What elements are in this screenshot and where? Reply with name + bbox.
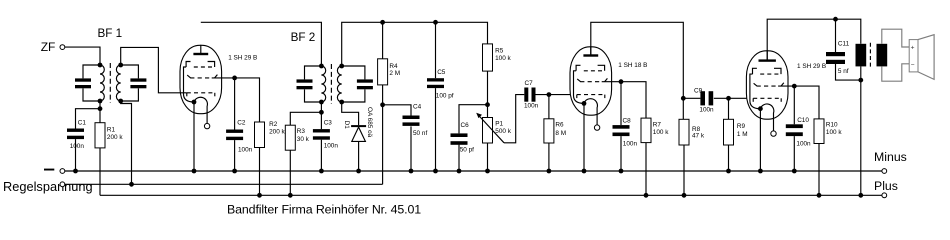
tube U2 anode (583, 54, 598, 56)
svg-text:C10: C10 (797, 117, 809, 124)
wire node to R3 (290, 112, 321, 125)
junction C2 minus (232, 169, 237, 174)
junction BF1 primary top (98, 63, 103, 68)
svg-text:R6: R6 (555, 122, 564, 129)
wire R10 to plus bus (818, 144, 820, 196)
wire rail to C5 (435, 22, 437, 78)
svg-text:R2: R2 (269, 121, 278, 128)
tuning capacitor across BF2 secondary (342, 66, 365, 79)
junction BF2 primary bottom (319, 100, 324, 105)
junction C1 minus (73, 169, 78, 174)
capacitor C9 (700, 91, 705, 105)
svg-text:100 k: 100 k (653, 129, 669, 136)
wire R4 to Regelspannung bus (382, 85, 384, 184)
capacitor C6 (451, 133, 468, 137)
wire BF2 secondary bottom to D1 (342, 102, 359, 125)
wire C8 to minus bus (620, 136, 622, 171)
wire node to C6 (459, 105, 488, 134)
tube U1 envelope (180, 45, 222, 113)
tube U2 envelope (570, 47, 612, 115)
svg-text:C6: C6 (461, 122, 470, 129)
junction R9 node (726, 96, 731, 101)
wire U3 anode to output transformer (767, 19, 861, 60)
tube U1 cathode/filament hook (194, 97, 207, 123)
wire C1 to minus bus (75, 139, 77, 171)
terminal Regelspannung (60, 182, 65, 187)
wire C5 to minus bus (435, 88, 437, 171)
tube U2 cathode junction (582, 101, 587, 106)
terminal ZF (60, 45, 65, 50)
wire ZF to BF1 primary top (65, 47, 100, 65)
tube U2 grid g3 (hooked dashed row) (576, 65, 580, 71)
label minus symbol (44, 169, 54, 171)
tube U1 screen lead to node (212, 77, 235, 79)
svg-text:100 k: 100 k (495, 55, 511, 62)
svg-text:R7: R7 (653, 121, 662, 128)
junction R4 top on rail (380, 20, 385, 25)
junction T1 plus (858, 193, 863, 198)
wire T1 primary bottom to plus bus (860, 66, 862, 195)
tube U1 grid g2 (dashed row) (190, 77, 210, 79)
junction R6 minus (547, 169, 552, 174)
resistor R1 (99, 109, 101, 123)
wire screen node to C8 (620, 82, 622, 125)
svg-text:47 k: 47 k (692, 132, 705, 139)
resistor R8 (679, 119, 689, 145)
wire screen node to R2 (235, 78, 260, 122)
tube U1 anode (193, 53, 208, 55)
speaker LS1 (909, 40, 918, 72)
svg-text:Minus: Minus (874, 150, 907, 164)
junction C5 top on rail (433, 20, 438, 25)
svg-text:100n: 100n (70, 143, 85, 150)
capacitor C3 (320, 112, 322, 129)
tube U2 filament terminal (594, 125, 599, 130)
wire C11 to primary bottom (836, 64, 861, 80)
transformer BF1 core (109, 63, 111, 103)
svg-text:500 k: 500 k (495, 128, 511, 135)
wire node to C4 (383, 105, 411, 116)
wire BF2 primary bottom to R3/C3 node (320, 102, 322, 112)
resistor R10 (814, 119, 824, 144)
terminal Minus right (882, 169, 887, 174)
wire C3 to minus bus (320, 140, 322, 171)
tube U3 cathode/filament hook (760, 104, 773, 131)
junction tube U2 cathode minus (582, 169, 587, 174)
wire node to C9 (683, 97, 700, 99)
svg-text:8 M: 8 M (555, 130, 566, 137)
resistor R7 (641, 118, 651, 143)
svg-text:R1: R1 (107, 127, 116, 134)
wire U1 anode to BF2 primary (201, 22, 322, 66)
wire tube U2 cathode to minus bus (583, 103, 585, 171)
junction R2 plus (257, 193, 262, 198)
wire R1 to plus bus (99, 148, 101, 195)
junction C7/R6 node (547, 92, 552, 97)
svg-text:5 nf: 5 nf (838, 68, 849, 75)
svg-text:Bandfilter Firma Reinhöfer Nr.: Bandfilter Firma Reinhöfer Nr. 45.01 (227, 202, 421, 216)
tuning capacitor across BF2 primary (305, 66, 322, 79)
wire screen node to R7 (621, 82, 646, 118)
capacitor C8 (613, 125, 630, 129)
junction BF2 secondary top (339, 64, 344, 69)
svg-text:1 SH 29 B: 1 SH 29 B (228, 55, 257, 62)
svg-text:50 nf: 50 nf (413, 130, 427, 137)
svg-text:R3: R3 (297, 128, 306, 135)
junction R8/C9 node (681, 96, 686, 101)
tube U2 screen lead to node (602, 81, 621, 83)
wire U2 anode to R8 (591, 22, 684, 119)
wire P1 wiper to C7 (504, 95, 524, 143)
tube U3 filament terminal (771, 131, 776, 136)
junction BF1 primary bottom (98, 99, 103, 104)
transformer BF1 secondary winding (116, 65, 120, 101)
wire C4 to minus bus (410, 126, 412, 171)
svg-text:100n: 100n (623, 140, 638, 147)
svg-text:C9: C9 (694, 87, 703, 94)
junction R9 minus (726, 169, 731, 174)
wire rail to C11 (835, 19, 837, 52)
wire screen node to C2 (234, 78, 236, 130)
junction P1 minus (485, 169, 490, 174)
tube U1 cathode junction (192, 100, 197, 105)
wire R6 to minus bus (548, 143, 550, 171)
junction secondary return on Regelspannung bus (129, 182, 134, 187)
wire tube U3 cathode to minus bus (759, 109, 761, 171)
svg-text:100n: 100n (699, 107, 714, 114)
tube U2 suppressor-to-cathode lead (574, 71, 585, 104)
terminal minus left (60, 169, 65, 174)
junction BF1 secondary top (118, 63, 123, 68)
tube U1 grid g3 (hooked dashed row) (186, 62, 190, 68)
junction tube U1 cathode minus (192, 169, 197, 174)
tube U1 anode lead (200, 45, 202, 54)
capacitor C4 (403, 116, 420, 120)
wire C6 to minus bus (458, 145, 460, 171)
resistor R4 (378, 59, 388, 85)
tube U2 grid g1 (dashed row) (577, 94, 605, 96)
svg-text:−: − (911, 61, 915, 68)
svg-text:2 M: 2 M (389, 70, 400, 77)
svg-text:C5: C5 (437, 69, 446, 76)
svg-text:P1: P1 (495, 121, 503, 128)
svg-text:OA 685 oä: OA 685 oä (366, 107, 373, 138)
tube U3 screen lead to node (778, 85, 794, 87)
transformer BF2 secondary winding (337, 66, 341, 102)
tube U3 grid g2 (dashed row) (757, 85, 777, 87)
wire rail to R4 (382, 22, 384, 59)
junction C11 top (833, 17, 838, 22)
wire BF1 secondary bottom to Regelspannung bus (121, 101, 132, 184)
tube U3 suppressor-to-cathode lead (750, 74, 761, 109)
svg-text:C1: C1 (78, 119, 87, 126)
junction U1 screen node (232, 76, 237, 81)
svg-text:100n: 100n (324, 143, 339, 150)
wire R3 to plus bus (289, 150, 291, 195)
output transformer T1 primary winding (856, 44, 867, 67)
svg-text:1 SH 29 B: 1 SH 29 B (797, 63, 826, 70)
junction BF2 secondary bottom (339, 100, 344, 105)
svg-text:C8: C8 (623, 117, 632, 124)
wire tube U1 cathode to minus bus (193, 102, 195, 171)
junction C6 minus (457, 169, 462, 174)
resistor R9 (724, 119, 734, 145)
junction U3 screen node (792, 84, 797, 89)
wire R2 to plus bus (259, 148, 261, 196)
junction C5 minus (433, 169, 438, 174)
wire R9 to minus bus (728, 145, 730, 171)
svg-text:100n: 100n (238, 146, 253, 153)
svg-text:C2: C2 (237, 119, 246, 126)
junction D1 minus (356, 169, 361, 174)
junction BF1 secondary bottom (118, 99, 123, 104)
svg-text:R4: R4 (389, 63, 398, 70)
wire R5 to P1 (487, 71, 489, 105)
tube U1 suppressor-to-cathode lead (184, 67, 195, 102)
wire C7 to U2 grid (536, 94, 571, 96)
wire node to R6 (548, 95, 550, 119)
minus bus wire (65, 170, 882, 172)
junction BF2 primary top (319, 64, 324, 69)
wire screen node to R10 (794, 86, 819, 119)
wire R8 to plus bus (683, 145, 685, 195)
wire BF1 secondary top to tube U1 grid (121, 47, 187, 92)
wire C9 to U3 grid (714, 97, 747, 99)
svg-text:+: + (911, 45, 915, 52)
output transformer T1 secondary winding (877, 44, 888, 67)
resistor R2 (255, 122, 265, 148)
capacitor C2 (226, 130, 243, 133)
junction R10 plus (817, 193, 822, 198)
potentiometer P1 (487, 105, 489, 171)
junction tube U3 cathode minus (758, 169, 763, 174)
transformer BF2 core (330, 64, 332, 104)
tube U3 grid g3 (hooked dashed row) (753, 68, 757, 74)
junction R8 plus (682, 193, 687, 198)
svg-text:C4: C4 (413, 104, 422, 111)
tube U1 filament terminal (204, 123, 209, 128)
tube U2 cathode/filament hook (584, 99, 597, 125)
junction R1/C1 node (98, 106, 103, 111)
svg-text:C3: C3 (324, 119, 333, 126)
svg-text:100n: 100n (796, 141, 811, 148)
wire node to C1 (76, 109, 101, 129)
svg-text:200 k: 200 k (269, 129, 285, 136)
tube U1 grid g1 (dashed row) (187, 92, 215, 94)
terminal Plus right (882, 193, 887, 198)
wire D1 to minus bus (358, 141, 360, 171)
capacitor C10 (786, 124, 803, 128)
junction C4 minus (409, 169, 414, 174)
svg-text:1 SH 18 B: 1 SH 18 B (618, 62, 647, 69)
svg-text:C7: C7 (525, 80, 534, 87)
resistor R5 (483, 44, 493, 71)
wire BF2 secondary top to detector rail (342, 22, 488, 66)
tuning capacitor across BF1 primary (83, 65, 100, 78)
svg-text:C11: C11 (838, 41, 850, 48)
wire R7 to plus bus (645, 143, 647, 196)
resistor R6 (544, 119, 554, 143)
wire BF1 primary bottom to R1/C1 node (99, 101, 101, 109)
junction R4/C4 node (380, 102, 385, 107)
junction R7 plus (644, 193, 649, 198)
tube U2 anode lead (590, 46, 592, 55)
transformer BF2 primary winding (321, 66, 325, 102)
wire C2 to minus bus (234, 140, 236, 171)
svg-text:BF 1: BF 1 (98, 27, 123, 40)
capacitor C7 (524, 88, 528, 102)
wire C10 to minus bus (793, 136, 795, 171)
wire node to R9 (728, 98, 730, 119)
svg-text:D1: D1 (343, 121, 350, 130)
junction C10 minus (792, 169, 797, 174)
plus bus wire (100, 194, 882, 196)
junction C3 minus (319, 169, 324, 174)
svg-text:100 k: 100 k (826, 129, 842, 136)
wire T1 secondary to speaker (882, 29, 909, 47)
svg-text:R10: R10 (826, 121, 838, 128)
svg-text:50 pf: 50 pf (460, 147, 474, 154)
svg-text:R5: R5 (495, 48, 504, 55)
resistor R3 (285, 125, 295, 150)
capacitor C1 (67, 129, 84, 132)
capacitor C5 (427, 78, 444, 81)
tube U3 envelope (746, 51, 788, 119)
junction primary bottom (858, 78, 863, 83)
Regelspannung bus wire (65, 183, 383, 185)
svg-text:Plus: Plus (874, 179, 898, 193)
svg-text:R9: R9 (737, 123, 746, 130)
svg-text:200 k: 200 k (107, 134, 123, 141)
junction R5/P1/C6 node (485, 102, 490, 107)
svg-text:1 M: 1 M (737, 131, 748, 138)
svg-text:30 k: 30 k (297, 136, 310, 143)
tube U3 anode lead (766, 50, 768, 60)
wire screen node to C10 (793, 86, 795, 124)
diode D1 (351, 125, 366, 127)
svg-text:100 pf: 100 pf (436, 93, 454, 100)
tube U3 grid g1 (dashed row) (753, 97, 781, 99)
junction C8 minus (619, 169, 624, 174)
junction R3/C3 node (319, 110, 324, 115)
tube U2 grid g2 (dashed row) (580, 81, 600, 83)
svg-text:Regelspannung: Regelspannung (3, 179, 93, 194)
tube U3 cathode junction (758, 106, 763, 111)
junction U2 screen node (619, 79, 624, 84)
tube U3 anode (759, 59, 776, 61)
output transformer T1 core (869, 43, 871, 67)
junction R3 plus (288, 193, 293, 198)
svg-text:100n: 100n (524, 102, 539, 109)
svg-text:ZF: ZF (41, 40, 56, 54)
tuning capacitor across BF1 secondary (121, 65, 139, 78)
svg-text:BF 2: BF 2 (291, 31, 316, 44)
capacitor C11 (826, 52, 845, 56)
transformer BF1 primary winding (100, 65, 104, 101)
